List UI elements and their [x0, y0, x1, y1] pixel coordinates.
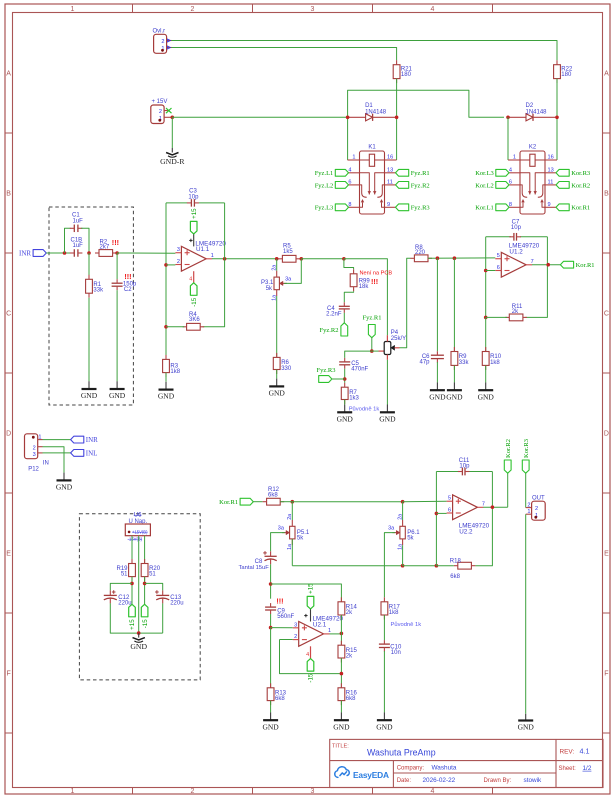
wire U2.1 out	[330, 633, 342, 635]
wire C4 to Fyz.R2	[343, 313, 345, 323]
svg-text:2: 2	[161, 39, 164, 45]
junction U2.1 pin3	[269, 626, 273, 630]
wire P5.1 top	[291, 502, 293, 520]
junction R4 left	[164, 325, 168, 329]
wire P6.1 top	[402, 502, 404, 520]
net flag Fyz.R3	[396, 204, 409, 211]
svg-text:2k: 2k	[346, 654, 353, 660]
svg-text:Washuta PreAmp: Washuta PreAmp	[367, 748, 436, 758]
svg-text:2a: 2a	[397, 514, 403, 520]
resistor R21	[393, 65, 400, 79]
op-amp U1.2 LME49720	[501, 252, 526, 277]
junction Fyz.R3	[343, 377, 347, 381]
svg-text:Fyz.L3: Fyz.L3	[315, 205, 334, 212]
wire Fyz.R1 down	[371, 338, 373, 351]
svg-text:Kor.R3: Kor.R3	[571, 170, 590, 177]
svg-text:GND: GND	[379, 414, 396, 423]
svg-text:GND: GND	[130, 642, 147, 651]
svg-text:13: 13	[548, 168, 554, 174]
svg-text:3: 3	[311, 6, 315, 13]
wire to R13	[270, 628, 272, 688]
junction R5 right	[300, 257, 304, 261]
svg-text:1k8: 1k8	[490, 360, 500, 366]
wire to P4 top	[344, 259, 388, 335]
svg-text:GND: GND	[262, 722, 279, 731]
potentiometer P6.1	[400, 526, 405, 539]
junction R1 top	[87, 251, 91, 255]
svg-text:+15: +15	[191, 208, 198, 219]
connector Ovl.r	[154, 34, 167, 53]
ground	[88, 381, 90, 389]
svg-text:10n: 10n	[391, 650, 401, 656]
resistor R8	[414, 255, 428, 262]
junction ground rail	[137, 631, 141, 635]
wire R19 to +15 flag	[131, 577, 133, 605]
wire pin6 stub	[436, 512, 446, 514]
wire feedback top	[486, 236, 511, 238]
wire to R18	[436, 565, 453, 567]
svg-text:P12: P12	[28, 467, 39, 473]
net flag Kor.R3	[522, 460, 529, 473]
svg-text:3: 3	[311, 788, 315, 795]
junction C8/C9/R14	[269, 582, 273, 586]
junction C2 top	[115, 251, 119, 255]
svg-text:1k3: 1k3	[349, 396, 359, 402]
capacitor C1B	[73, 249, 75, 257]
svg-text:Původně 1k: Původně 1k	[349, 405, 380, 412]
wire P6.1 bottom	[402, 545, 404, 566]
svg-text:-15: -15	[308, 673, 315, 683]
svg-text:GND: GND	[478, 392, 495, 401]
junction R18 left	[435, 564, 439, 568]
wire C1 to node2	[81, 228, 89, 253]
svg-text:33k: 33k	[459, 360, 470, 366]
svg-text:Kor.R1: Kor.R1	[219, 499, 238, 506]
svg-text:!!!: !!!	[112, 238, 119, 247]
wire P5.1 bottom	[291, 539, 293, 566]
pin 8 V+ mark	[189, 239, 192, 241]
svg-text:+15V(B): +15V(B)	[132, 530, 148, 535]
wire C13 to ground rail	[162, 603, 164, 633]
ground GND	[138, 633, 140, 638]
wire R21 to K1 pin16	[396, 79, 398, 160]
potentiometer P3.1	[274, 277, 279, 290]
svg-text:D: D	[6, 431, 11, 438]
wire R22 to K2 pin16	[556, 79, 558, 160]
wire feedback right vertical	[224, 203, 226, 259]
svg-text:GND: GND	[269, 389, 286, 398]
power flag +15	[190, 221, 197, 234]
junction P6.1 top	[401, 500, 405, 504]
resistor R2	[99, 250, 113, 257]
svg-text:6k8: 6k8	[275, 696, 285, 702]
wire rail to U2.2 pin5	[403, 500, 447, 503]
power flag +15 on U2.1 pin 8	[310, 609, 312, 622]
junction U1.2 out	[546, 263, 550, 267]
resistor R5	[282, 255, 296, 262]
svg-text:3K6: 3K6	[189, 317, 200, 323]
wire down to R10	[485, 317, 487, 351]
net flag Fyz.L3	[335, 204, 348, 211]
pin 4 lead to -15	[193, 271, 195, 283]
resistor R19	[129, 564, 136, 577]
wire pin3 stub	[271, 627, 293, 629]
wire P3.1 wiper to R5 right	[284, 259, 301, 284]
resistor R4	[187, 323, 201, 330]
resistor R14	[338, 602, 345, 615]
resistor R20	[141, 564, 148, 577]
svg-text:GND: GND	[337, 414, 354, 423]
junction P6.1 bottom	[401, 564, 405, 568]
svg-text:220u: 220u	[118, 601, 131, 607]
capacitor C3	[190, 199, 192, 207]
svg-text:Company:: Company:	[397, 766, 425, 772]
wire R5 to node	[301, 258, 344, 260]
wire to C12	[110, 583, 132, 590]
svg-text:Kor.R1: Kor.R1	[571, 205, 590, 212]
net flag Fyz.R2	[396, 182, 409, 189]
svg-text:Drawn By:: Drawn By:	[484, 778, 512, 784]
svg-text:F: F	[604, 671, 608, 678]
wire R8 to U1.2 pin5	[428, 257, 495, 259]
wire P4 bottom to ground	[386, 360, 388, 405]
svg-text:2a: 2a	[287, 514, 293, 520]
junction D1 anode	[346, 116, 350, 120]
svg-text:2a: 2a	[272, 265, 278, 271]
svg-text:4: 4	[189, 277, 192, 283]
net flag Fyz.L2	[335, 182, 348, 189]
svg-text:Původně 1k: Původně 1k	[391, 621, 422, 628]
wire up to C1	[65, 228, 71, 253]
dashed box U Nap	[79, 514, 200, 680]
wire R20 to -15 flag	[144, 577, 146, 605]
svg-text:INR: INR	[19, 249, 31, 257]
svg-text:6: 6	[497, 265, 500, 271]
wire Ovl.r pin2 to R22	[172, 41, 558, 61]
svg-text:11: 11	[548, 180, 554, 186]
capacitor C6	[431, 354, 444, 356]
svg-text:E: E	[604, 551, 609, 558]
wire R6 to ground	[276, 370, 278, 379]
ground	[386, 405, 388, 413]
junction C6	[436, 256, 440, 260]
svg-text:GND: GND	[333, 722, 350, 731]
wire C2 to ground	[116, 290, 118, 381]
wire R14 to out	[340, 615, 342, 645]
wire P3.1 bottom to R6	[276, 296, 278, 357]
svg-text:7: 7	[482, 502, 485, 508]
wire R9 to ground	[453, 366, 455, 383]
net flag Kor.L3	[496, 169, 509, 176]
net flag Kor.R3	[556, 169, 569, 176]
power flag +15	[307, 596, 314, 609]
wire R9 branch	[453, 258, 455, 351]
svg-text:stowik: stowik	[524, 777, 543, 784]
svg-text:K2: K2	[529, 145, 537, 151]
wire branch to R99	[344, 259, 354, 270]
net flag Fyz.L1	[335, 169, 348, 176]
svg-text:1: 1	[527, 509, 530, 515]
svg-text:B: B	[604, 191, 609, 198]
wire +15 rail to relays	[348, 90, 504, 160]
resistor R1	[86, 279, 93, 293]
diode D2	[508, 116, 526, 118]
svg-text:3: 3	[177, 247, 180, 253]
junction U1.2 pin6	[484, 269, 488, 273]
svg-text:5: 5	[497, 253, 500, 259]
svg-text:D: D	[604, 431, 609, 438]
svg-text:2: 2	[159, 109, 162, 115]
no-connect X on +15V pin 2	[166, 108, 172, 113]
power flag -15	[190, 283, 197, 296]
svg-text:+15: +15	[129, 619, 136, 630]
wire feedback right upper	[491, 472, 493, 508]
junction +15V pin1	[171, 116, 175, 120]
svg-text:13: 13	[387, 168, 393, 174]
svg-text:10p: 10p	[511, 225, 522, 231]
svg-text:2k: 2k	[512, 309, 519, 315]
svg-text:GND-R: GND-R	[160, 157, 185, 166]
wire C9 to U2.1 pin3	[270, 614, 272, 628]
svg-text:6k8: 6k8	[450, 574, 460, 580]
wire feedback right	[546, 237, 548, 265]
wire P4 wiper to R8	[400, 258, 411, 348]
svg-text:GND: GND	[56, 483, 73, 492]
net flag Kor.R1	[560, 261, 573, 268]
title block	[330, 739, 603, 787]
wire R11 left	[486, 316, 507, 318]
wire U1.2 out	[532, 264, 560, 266]
connector OUT	[532, 501, 546, 520]
svg-text:Kor.R2: Kor.R2	[505, 439, 512, 458]
svg-text:330: 330	[281, 366, 292, 372]
svg-text:7: 7	[531, 259, 534, 265]
net flag Kor.L1	[496, 204, 509, 211]
junction -15 node	[143, 582, 147, 586]
net flag INR	[71, 436, 84, 443]
svg-text:Sheet:: Sheet:	[559, 766, 577, 772]
power flag -15	[141, 604, 148, 617]
svg-text:U6: U6	[134, 513, 142, 519]
wire U1.2 feedback left	[485, 237, 487, 318]
svg-text:2: 2	[33, 445, 36, 451]
wire junction to P4 pin	[372, 350, 379, 352]
capacitor C13	[156, 594, 169, 596]
diode D1	[348, 116, 366, 118]
svg-text:R18: R18	[450, 558, 462, 564]
svg-text:-15: -15	[191, 297, 198, 307]
svg-text:1k8: 1k8	[389, 610, 399, 616]
svg-text:180: 180	[561, 72, 572, 78]
ground	[344, 405, 346, 413]
svg-text:6: 6	[448, 508, 451, 514]
svg-text:Není na PCB: Není na PCB	[360, 271, 393, 277]
svg-text:3a: 3a	[285, 277, 292, 283]
svg-text:B: B	[6, 191, 11, 198]
svg-text:1: 1	[513, 154, 516, 160]
svg-text:U2.1: U2.1	[313, 621, 327, 628]
svg-text:16: 16	[387, 154, 393, 160]
capacitor C9	[265, 606, 276, 608]
potentiometer P5.1	[290, 526, 295, 539]
junction R99 branch	[342, 257, 346, 261]
svg-text:2: 2	[527, 502, 530, 508]
svg-text:3a: 3a	[388, 526, 395, 532]
net flag INR	[33, 250, 46, 257]
svg-text:5k: 5k	[266, 286, 273, 292]
svg-text:Fyz.R3: Fyz.R3	[317, 367, 336, 374]
svg-text:16: 16	[548, 154, 554, 160]
net flag INL	[71, 450, 84, 457]
svg-text:9: 9	[387, 202, 390, 208]
svg-text:2k7: 2k7	[100, 245, 110, 251]
svg-text:F: F	[6, 671, 10, 678]
op-amp U2.1 LME49720	[299, 622, 324, 647]
svg-text:1: 1	[352, 154, 355, 160]
svg-text:10p: 10p	[188, 194, 199, 200]
ground	[453, 382, 455, 390]
wire R17 to C10	[383, 615, 385, 640]
svg-text:REV:: REV:	[560, 749, 575, 756]
svg-text:K1: K1	[368, 145, 376, 151]
net flag Kor.R2	[556, 182, 569, 189]
svg-text:-15: -15	[142, 619, 149, 629]
wire R1 to ground	[88, 298, 90, 382]
wire U2.2 feedback left	[435, 472, 437, 566]
svg-text:1: 1	[38, 434, 41, 440]
wire OUT pin1 to ground	[525, 514, 527, 714]
wire C12 to ground rail	[110, 603, 162, 633]
wire Ovl.r pin1 to R21	[172, 48, 397, 61]
resistor R3	[163, 359, 170, 372]
net flag Kor.L2	[496, 182, 509, 189]
svg-text:3: 3	[33, 452, 36, 458]
junction C5/P4	[370, 349, 374, 353]
wire +15V pin1 down to GND-R	[171, 117, 173, 148]
svg-text:2: 2	[191, 788, 195, 795]
wire P12 pin3 to INL	[43, 452, 71, 454]
svg-text:5: 5	[448, 496, 451, 502]
wire P3.1 top	[276, 259, 278, 271]
wire flag Fyz.R3	[332, 378, 345, 380]
svg-text:D2: D2	[526, 103, 534, 109]
capacitor C7	[513, 233, 515, 241]
wire P12 pin1 to INR	[43, 439, 71, 441]
resistor R6	[273, 357, 280, 369]
wire INR to C1 node	[46, 252, 70, 254]
svg-text:560nF: 560nF	[277, 614, 294, 620]
EasyEDA logo	[335, 767, 349, 778]
wire +15V rail to D1 anode	[172, 116, 347, 118]
svg-text:E: E	[6, 551, 11, 558]
svg-text:2: 2	[535, 506, 538, 512]
junction D2 cathode	[555, 116, 559, 120]
wire P12 pin2 to ground	[43, 447, 65, 473]
net flag Fyz.R1	[396, 169, 409, 176]
resistor R99	[350, 274, 357, 287]
ground	[525, 714, 527, 721]
potentiometer P4	[384, 342, 391, 355]
svg-text:Tantal 15uF: Tantal 15uF	[239, 565, 270, 571]
svg-text:5k: 5k	[297, 536, 304, 542]
wire C8 to C9 node	[270, 564, 272, 598]
svg-text:INR: INR	[86, 436, 98, 444]
svg-text:1: 1	[328, 628, 331, 634]
wire R12 out	[280, 501, 292, 503]
resistor R15	[338, 645, 345, 658]
capacitor C5	[339, 361, 350, 363]
capacitor C4	[339, 305, 350, 307]
svg-text:!!!: !!!	[371, 277, 378, 286]
resistor R11	[509, 314, 523, 321]
junction U2.1 out	[340, 632, 344, 636]
ground	[340, 712, 342, 720]
svg-text:TITLE:: TITLE:	[332, 744, 349, 750]
pin 8 V+ mark	[304, 615, 307, 617]
junction D2 anode	[506, 116, 510, 120]
wire pin2 stub	[166, 264, 175, 266]
svg-text:51: 51	[149, 572, 156, 578]
svg-text:6k8: 6k8	[346, 696, 356, 702]
resistor R13	[267, 688, 274, 701]
svg-text:C: C	[6, 311, 11, 318]
svg-text:18k: 18k	[359, 284, 370, 290]
wire node3 down	[116, 253, 118, 279]
svg-text:Fyz.L2: Fyz.L2	[315, 182, 334, 189]
wire node to C5	[345, 351, 372, 358]
power flag -15	[307, 659, 314, 672]
svg-text:1N4148: 1N4148	[365, 109, 387, 115]
svg-text:180: 180	[401, 72, 412, 78]
wire reg to R20	[144, 536, 146, 564]
op-amp U1.1 LME49720	[181, 246, 206, 271]
wire reg middle to ground rail	[138, 536, 140, 633]
wire to C13	[145, 583, 163, 590]
wire pin6 stub	[486, 270, 496, 272]
svg-text:GND: GND	[446, 392, 463, 401]
svg-text:GND: GND	[109, 391, 126, 400]
net flag Kor.R1	[556, 204, 569, 211]
capacitor C8 tantal	[265, 555, 277, 557]
wire rail to feedback	[403, 565, 437, 567]
svg-text:9: 9	[548, 202, 551, 208]
wire U2.2 out	[483, 506, 508, 508]
wire to R12	[253, 501, 262, 503]
ground	[63, 473, 65, 481]
relay K2	[520, 151, 545, 214]
svg-text:1k5: 1k5	[283, 249, 293, 255]
svg-text:4: 4	[306, 652, 309, 658]
svg-text:Fyz.L1: Fyz.L1	[315, 170, 334, 177]
svg-text:33k: 33k	[93, 287, 104, 293]
svg-text:1: 1	[71, 788, 75, 795]
svg-text:Kor.L1: Kor.L1	[475, 205, 494, 212]
svg-text:U2.2: U2.2	[459, 529, 473, 536]
svg-text:Fyz.R1: Fyz.R1	[363, 314, 382, 321]
wire node2 down	[88, 253, 90, 279]
wire rail to P6.1	[292, 501, 402, 503]
svg-text:6k8: 6k8	[268, 492, 278, 498]
svg-text:1N4148: 1N4148	[526, 109, 548, 115]
svg-text:2: 2	[191, 6, 195, 13]
svg-text:4: 4	[431, 6, 435, 13]
svg-text:2: 2	[294, 634, 297, 640]
junction pin2	[164, 263, 168, 267]
svg-text:INL: INL	[86, 449, 98, 457]
wire R99 to C4	[344, 291, 353, 302]
ground	[436, 382, 438, 390]
wire node to R14	[271, 584, 342, 602]
